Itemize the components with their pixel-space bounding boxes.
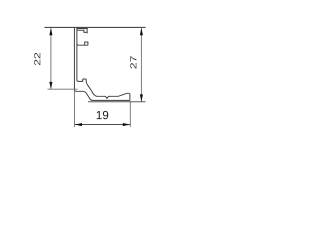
C-channel top arm underside	[77, 29, 85, 31]
dimension 27: dimension line (right vertical)	[140, 28, 142, 101]
C-channel bottom hook top edge	[84, 41, 88, 43]
C-channel bottom hook inner leg	[84, 42, 86, 45]
dimension 27: label "27" (rotated)	[130, 56, 136, 68]
dimension 22: upper arrowhead	[49, 28, 52, 35]
C-channel top hook inner leg	[83, 30, 85, 33]
dimension 27: bottom extension line	[88, 101, 146, 103]
C-channel bottom arm with rounded root	[77, 43, 88, 45]
dimension 22: label "22" (rotated)	[34, 53, 40, 65]
C-channel top hook outer leg	[86, 28, 88, 33]
profile outer contour (left wall outer edge, lower ledge, S-bend, foot bottom, lip right edge)	[74, 28, 129, 101]
dimension 22: dimension line (left vertical)	[50, 28, 52, 89]
C-channel groove top arm	[77, 28, 88, 30]
dimension 27: upper arrowhead	[140, 28, 143, 35]
dimension 19: label "19"	[97, 111, 109, 119]
profile inner contour (left wall inner edge, ledge, retaining nub, S-bend, foot top with notch, lip diagonal)	[77, 28, 130, 99]
top mounting surface line	[45, 26, 146, 28]
dimension 19: right arrowhead	[123, 123, 130, 126]
dimension 22: lower arrowhead	[49, 82, 52, 89]
C-channel top hook bottom edge	[84, 31, 88, 33]
dimension 19: right extension line	[129, 101, 131, 127]
dimension 22: bottom extension line	[48, 88, 78, 90]
dimension 19: dimension line (bottom horizontal)	[75, 124, 130, 126]
dimension 19: left extension line	[74, 91, 76, 128]
C-channel bottom hook outer leg	[87, 42, 89, 46]
white background	[0, 0, 202, 151]
dimension 19: left arrowhead	[75, 123, 82, 126]
dimension 27: lower arrowhead	[140, 94, 143, 101]
